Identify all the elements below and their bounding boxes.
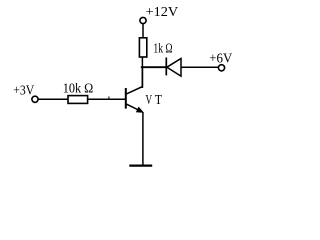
transistor VT emitter arrowhead	[136, 107, 143, 112]
wire: emitter to ground	[142, 112, 144, 165]
svg-text:1k Ω: 1k Ω	[153, 41, 172, 56]
wire: diode to +6V terminal	[181, 66, 219, 68]
wire: R2 bottom to collector junction	[141, 57, 143, 88]
svg-text:+3V: +3V	[13, 83, 34, 98]
wire: R1 right to base of VT	[88, 98, 126, 100]
terminal +12V	[140, 17, 146, 23]
svg-text:T: T	[155, 93, 162, 108]
transistor VT emitter lead	[127, 104, 141, 111]
resistor R1 body	[68, 96, 88, 104]
resistor R2 body	[139, 38, 146, 57]
terminal +6V	[218, 65, 224, 71]
terminal +3V	[32, 96, 38, 102]
diode D triangle	[167, 59, 181, 77]
junction tick on base wire	[108, 97, 110, 100]
wire: +3V terminal to R1 left	[39, 98, 69, 100]
svg-text:+12V: +12V	[146, 5, 179, 20]
wire: junction to diode anode side	[141, 66, 167, 68]
svg-text:V: V	[146, 93, 153, 108]
svg-text:10k Ω: 10k Ω	[63, 82, 94, 97]
transistor VT base bar	[125, 88, 127, 109]
svg-text:+6V: +6V	[209, 52, 232, 67]
transistor VT collector lead	[127, 68, 143, 94]
ground bar	[129, 165, 152, 167]
diode D cathode bar	[165, 58, 167, 76]
wire: +12V terminal to R2 top	[142, 24, 144, 38]
